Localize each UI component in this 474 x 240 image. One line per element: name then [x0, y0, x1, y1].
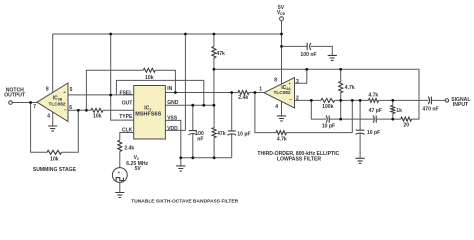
svg-text:2.4k: 2.4k — [124, 146, 134, 152]
capacitor 100nF bypass — [192, 105, 194, 158]
resistor 1k — [392, 100, 394, 119]
resistor 47k lower — [213, 105, 215, 158]
junction 5V bypass tap — [280, 45, 283, 48]
svg-text:8: 8 — [46, 86, 49, 92]
junction notch output node — [29, 101, 32, 104]
IC1 box MSHFS6S — [134, 86, 166, 140]
op-amp IC2B triangle — [37, 83, 68, 122]
svg-text:47k: 47k — [216, 51, 225, 57]
capacitor 47pF — [373, 116, 376, 123]
wire vertical rail-to-pin5 node and down to TYPE pin — [111, 34, 134, 120]
wire op-amp pin6 row to OUT pin — [68, 109, 134, 111]
wire GND rail — [165, 104, 214, 106]
ground 10pF — [356, 158, 365, 163]
wire summing feedback loop — [31, 103, 79, 153]
svg-text:TLC082: TLC082 — [49, 101, 66, 106]
wire IN row — [165, 92, 264, 94]
wire FSEL to GND-rail loop — [116, 80, 203, 105]
wire 5V VDD drop — [281, 21, 283, 84]
svg-text:4: 4 — [275, 104, 278, 110]
resistor 2.4k clock — [118, 140, 122, 151]
svg-text:10 pF: 10 pF — [322, 123, 335, 129]
resistor 10k bandpass feedback — [143, 68, 155, 72]
svg-text:7: 7 — [33, 104, 36, 110]
terminal notch output — [9, 101, 13, 105]
svg-text:470 nF: 470 nF — [422, 106, 438, 112]
resistor 4.7k feedback — [276, 131, 287, 135]
junctions on filter lower row — [339, 118, 394, 121]
svg-text:5: 5 — [70, 87, 73, 93]
wire bottom rail — [181, 157, 232, 159]
wire pin2 to node — [295, 99, 312, 101]
svg-text:GND: GND — [167, 100, 179, 106]
svg-text:−: − — [289, 97, 292, 102]
junctions on signal row — [310, 99, 394, 102]
junctions on IN row — [174, 91, 256, 94]
resistor 100k — [321, 98, 335, 102]
wire CLK branch — [120, 133, 134, 193]
svg-text:1: 1 — [259, 86, 262, 92]
wire signal row — [311, 99, 445, 101]
ground 100nF supply — [328, 55, 337, 60]
svg-text:TYPE: TYPE — [119, 114, 133, 120]
svg-text:6: 6 — [69, 105, 72, 111]
svg-text:100k: 100k — [322, 104, 333, 110]
junctions on summing node row — [77, 109, 88, 112]
svg-text:OUTPUT: OUTPUT — [4, 92, 26, 98]
junctions on bottom ground rail — [179, 156, 215, 159]
svg-text:1k: 1k — [396, 108, 402, 114]
svg-text:47 pF: 47 pF — [369, 108, 382, 114]
svg-text:5V: 5V — [135, 166, 142, 172]
svg-text:10k: 10k — [50, 156, 59, 162]
resistor 4.7k shunt — [340, 69, 342, 119]
svg-text:OUT: OUT — [122, 101, 133, 107]
resistor 4.7k series right — [369, 98, 379, 102]
svg-text:CLK: CLK — [122, 128, 133, 134]
resistor 10k summing input — [91, 108, 103, 112]
svg-text:10 pF: 10 pF — [237, 131, 250, 137]
terminal signal input — [445, 99, 448, 102]
wire op-amp pin5 to FSEL — [68, 94, 134, 96]
junctions on bias rail — [213, 68, 343, 71]
svg-text:3: 3 — [296, 79, 299, 85]
source V2 circle — [112, 168, 127, 183]
ground bottom rail — [180, 158, 182, 166]
svg-text:VDD: VDD — [167, 126, 178, 132]
ground IC2A pin4 — [281, 101, 283, 116]
svg-text:8: 8 — [274, 78, 277, 84]
svg-text:2: 2 — [296, 96, 299, 102]
svg-text:SUMMING STAGE: SUMMING STAGE — [33, 167, 77, 173]
wire notch output to op-amp — [12, 102, 37, 104]
svg-text:LOWPASS FILTER: LOWPASS FILTER — [277, 156, 322, 162]
junctions on 5V top rail — [109, 33, 283, 36]
wire op-amp feedback 4.7k — [255, 93, 352, 133]
svg-text:20: 20 — [403, 123, 409, 129]
svg-text:10k: 10k — [93, 114, 102, 120]
wire pin3 to bias rail — [295, 69, 307, 83]
svg-text:VSS: VSS — [167, 115, 178, 121]
wire pin6-node up and feedback 10k row to IN — [86, 70, 175, 110]
svg-text:4.7k: 4.7k — [368, 93, 378, 99]
svg-text:−: − — [64, 108, 67, 113]
svg-text:nF: nF — [197, 137, 203, 143]
capacitor 10pF left vertical — [231, 93, 233, 158]
svg-text:10k: 10k — [145, 75, 154, 81]
svg-text:IN: IN — [167, 86, 172, 92]
wire top 5V rail — [53, 33, 282, 35]
ground V2 — [115, 193, 124, 198]
svg-text:2.4k: 2.4k — [238, 95, 248, 101]
svg-text:10 pF: 10 pF — [367, 130, 380, 136]
resistor 2.4k series — [238, 91, 249, 95]
capacitor 470nF — [428, 97, 431, 105]
svg-text:4.7k: 4.7k — [345, 85, 355, 91]
capacitor 10pF to ground — [359, 100, 361, 158]
svg-text:TUNABLE SIXTH-OCTAVE BANDPASS: TUNABLE SIXTH-OCTAVE BANDPASS FILTER — [131, 198, 238, 204]
wire VDD to 5V — [165, 34, 185, 130]
op-amp IC2A triangle — [264, 78, 295, 109]
capacitor 10pF series — [326, 116, 329, 123]
svg-text:4.7k: 4.7k — [277, 137, 287, 143]
svg-text:4: 4 — [47, 113, 50, 119]
ground IC2B pin4 — [52, 112, 54, 126]
svg-text:MSHFS6S: MSHFS6S — [135, 112, 161, 118]
svg-text:47k: 47k — [217, 131, 226, 137]
resistor 10k summing feedback — [47, 150, 62, 154]
terminal 5V — [280, 17, 284, 21]
resistor 47k upper divider — [213, 34, 215, 105]
capacitor 100nF supply — [282, 46, 333, 55]
wire VSS to bottom rail — [165, 120, 180, 157]
svg-text:TLC082: TLC082 — [274, 90, 291, 95]
svg-text:100 nF: 100 nF — [300, 52, 316, 58]
svg-text:FSEL: FSEL — [120, 90, 133, 96]
junctions on GND rail — [191, 104, 215, 107]
wire IC2B pin8 to rail — [52, 34, 54, 92]
junction node pin5/FSEL — [109, 94, 112, 97]
svg-text:INPUT: INPUT — [453, 102, 469, 108]
resistor 20 — [401, 117, 412, 121]
wire bias rail y=69.3 — [214, 69, 419, 119]
